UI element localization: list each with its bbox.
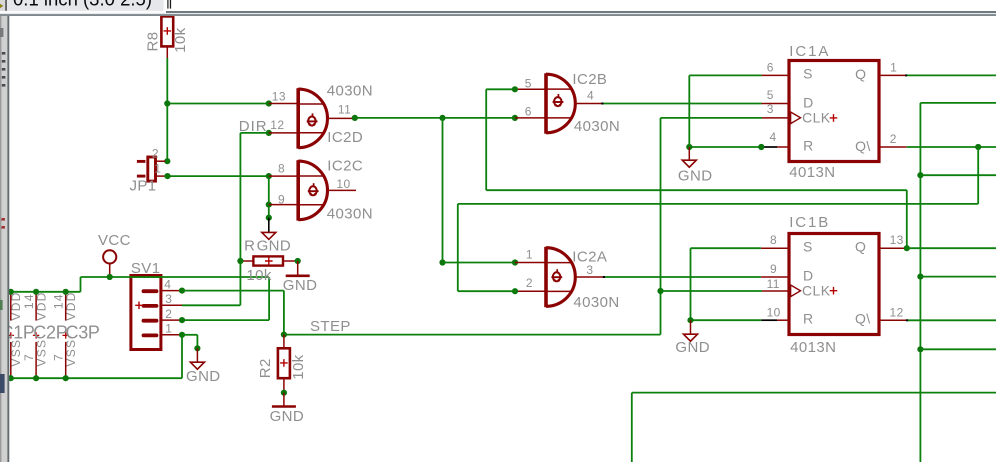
wire IC2B pin5 feedback from IC1B Q	[486, 88, 515, 90]
junction GND/IC1B	[687, 317, 693, 323]
wire SV1 pin4 (STEP)	[182, 290, 284, 292]
wire to IC1B CLK	[661, 290, 763, 292]
svg-text:GND: GND	[675, 339, 710, 356]
svg-text:11: 11	[767, 277, 780, 291]
junction VSS C1P	[8, 375, 14, 381]
svg-text:IC2C: IC2C	[327, 158, 363, 175]
svg-text:R2: R2	[257, 358, 274, 378]
svg-text:9: 9	[770, 262, 777, 276]
wire STEP	[284, 334, 661, 336]
junction IC2D output	[352, 115, 358, 121]
wire DIR to IC2D pin 12	[240, 132, 268, 134]
junction IC1A R pin	[758, 144, 764, 150]
wire IC2B out to IC1A D	[602, 103, 761, 105]
junction GND/IC1A	[686, 144, 692, 150]
junction at R8/IC2D branch	[164, 100, 170, 106]
svg-text:4030N: 4030N	[327, 205, 373, 222]
svg-text:4: 4	[770, 130, 777, 144]
svg-text:12: 12	[890, 306, 904, 320]
wire down from T to IC2A pin1	[442, 118, 444, 263]
svg-text:5: 5	[767, 88, 774, 102]
svg-text:D: D	[803, 267, 814, 283]
wire to IC2A pin 1	[443, 262, 516, 264]
ground stem	[196, 348, 198, 362]
svg-text:VDD: VDD	[9, 291, 23, 320]
svg-text:GND: GND	[283, 277, 318, 294]
junction IC2B pin6	[512, 115, 518, 121]
svg-text:R: R	[244, 237, 255, 254]
svg-text:4013N: 4013N	[790, 339, 836, 356]
ground symbol GND (below IC2C)	[262, 232, 276, 239]
svg-text:8: 8	[770, 233, 777, 247]
svg-text:14: 14	[52, 293, 66, 309]
svg-text:10k: 10k	[172, 27, 189, 52]
junction SV1 pin2	[179, 317, 185, 323]
resistor R (10k pullup, horizontal)	[240, 256, 297, 265]
svg-text:1: 1	[526, 247, 533, 261]
wire SV1 pin1 to VSS rail	[181, 335, 183, 378]
junction T at x443	[439, 115, 445, 121]
svg-text:VSS: VSS	[35, 339, 49, 367]
svg-text:7: 7	[22, 353, 36, 361]
svg-text:Q\: Q\	[855, 311, 871, 327]
black overlap on R pin	[761, 146, 777, 148]
svg-text:4030N: 4030N	[573, 294, 619, 311]
svg-text:10k: 10k	[290, 354, 307, 379]
origin cross IC1A	[830, 114, 838, 122]
wire net N$1: R8 to JP1 pin2	[166, 58, 168, 161]
svg-text:S: S	[803, 238, 813, 254]
wire IC1A S/R to GND	[689, 74, 761, 76]
svg-text:13: 13	[272, 90, 286, 104]
junction IC2A pin2	[512, 288, 518, 294]
junction VDD C2P	[33, 289, 39, 295]
svg-text:10: 10	[767, 306, 781, 320]
svg-text:IC2B: IC2B	[572, 71, 607, 88]
ground symbol GND (SV1)	[190, 362, 204, 369]
svg-text:VDD: VDD	[35, 291, 49, 320]
pin header C3P	[63, 292, 69, 378]
svg-text:4013N: 4013N	[789, 164, 835, 181]
svg-text:VSS: VSS	[64, 339, 78, 367]
wire branch to IC2D pin 13	[167, 103, 268, 105]
wire bus branch y277	[920, 276, 996, 278]
junction VSS C2P	[33, 375, 39, 381]
svg-text:11: 11	[338, 102, 351, 116]
svg-text:JP1: JP1	[130, 178, 157, 195]
svg-text:CLK: CLK	[802, 110, 831, 126]
origin cross IC1B	[830, 287, 838, 295]
svg-text:C2P: C2P	[33, 323, 67, 343]
wire VCC over SV1 box top	[130, 276, 163, 278]
junction VDD C3P	[63, 289, 69, 295]
junction bus y349	[917, 346, 923, 352]
svg-text:9: 9	[278, 193, 285, 207]
svg-text:4030N: 4030N	[574, 118, 620, 135]
junction VDD C1P	[8, 289, 14, 295]
wire IC1B Q\ right	[907, 319, 996, 321]
wire IC1B S/R to GND	[691, 247, 761, 249]
pin header C2P	[33, 292, 39, 378]
svg-text:12: 12	[270, 118, 284, 132]
wire DIR vertical SV1 pin3 to IC2D pin12	[239, 133, 241, 305]
wire IC2C pin8 down to pin9 and GND	[268, 176, 270, 218]
wire JP1 pin1 to IC2C pin 8	[168, 175, 269, 177]
svg-text:4: 4	[587, 88, 594, 102]
top status bar background	[0, 0, 996, 16]
flip-flop IC1A (4013N)	[762, 61, 907, 162]
XOR gate IC2B (4030N)	[515, 73, 602, 133]
junction R2 bottom	[281, 390, 287, 396]
ground symbol GND (IC1B)	[684, 334, 698, 341]
ground stem	[690, 320, 692, 334]
connector SV1	[131, 276, 182, 350]
junction IC2D pin 13	[266, 100, 272, 106]
ground stem	[297, 261, 299, 275]
junction SV1 pin1	[179, 332, 185, 338]
svg-text:2: 2	[526, 276, 533, 290]
wire VCC rail	[110, 276, 269, 278]
ground symbol GND (bar style, R2)	[272, 405, 296, 408]
wire IC1B Q right	[907, 247, 996, 249]
svg-text:GND: GND	[270, 408, 305, 425]
svg-text:13: 13	[890, 233, 904, 247]
svg-text:8: 8	[278, 161, 285, 175]
wire CLK net: IC1A CLK corner	[661, 117, 763, 119]
junction VSS C3P	[63, 375, 69, 381]
junction IC2D pin 12	[266, 130, 272, 136]
junction at JP1 pin 2	[164, 158, 170, 164]
junction VCC	[107, 274, 113, 280]
junction IC2C pin 9	[266, 202, 272, 208]
svg-text:2: 2	[890, 132, 897, 146]
junction CLK branch to IC1B	[657, 288, 663, 294]
ground stem	[688, 147, 690, 160]
jumper JP1	[137, 157, 165, 181]
svg-text:Q: Q	[855, 239, 866, 255]
junction IC2C pin 8	[266, 173, 272, 179]
left toolbar sliver	[0, 16, 8, 462]
resistor R8	[161, 16, 173, 58]
svg-text:S: S	[803, 66, 813, 82]
XOR gate IC2D (4030N)	[269, 88, 355, 148]
svg-text:IC2D: IC2D	[327, 129, 363, 146]
junction SV1 pin4	[179, 288, 185, 294]
junction IC1B Q pin13	[904, 245, 910, 251]
wire right bus vertical	[919, 103, 921, 462]
svg-text:1: 1	[154, 162, 161, 176]
svg-text:0.1 inch (3.0 2.5): 0.1 inch (3.0 2.5)	[13, 0, 152, 11]
junction STEP/R2	[281, 332, 287, 338]
XOR gate IC2A (4030N)	[515, 247, 604, 307]
wire IC2D out to IC2B pin6	[355, 117, 515, 119]
svg-text:6: 6	[525, 104, 532, 118]
coordinate field	[7, 0, 164, 11]
XOR gate IC2C (4030N)	[269, 160, 356, 220]
svg-text:STEP: STEP	[310, 318, 351, 335]
svg-text:GND: GND	[678, 167, 713, 184]
junction Q\ feedback	[975, 144, 981, 150]
svg-text:4030N: 4030N	[327, 83, 373, 100]
double rule under bar	[0, 11, 996, 13]
junction at JP1 pin 1	[164, 173, 170, 179]
svg-text:VDD: VDD	[64, 291, 78, 320]
svg-text:3: 3	[165, 292, 172, 306]
wire IC1A Q\ right	[907, 146, 996, 148]
svg-text:1: 1	[165, 322, 172, 336]
svg-text:1: 1	[890, 61, 897, 75]
resistor R2 (10k, vertical)	[278, 335, 290, 393]
svg-text:SV1: SV1	[131, 260, 161, 277]
svg-text:4: 4	[164, 277, 171, 291]
ground symbol GND (bar style)	[286, 274, 310, 277]
junction IC2A pin1	[512, 259, 518, 265]
svg-text:R: R	[803, 138, 814, 154]
svg-text:14: 14	[22, 293, 36, 309]
svg-text:GND: GND	[186, 368, 221, 385]
ground stem	[283, 393, 285, 406]
wire SV1 pin1 to GND	[182, 334, 197, 336]
svg-text:IC1B: IC1B	[789, 214, 830, 231]
wire DIR corner to SV1 pin 3	[182, 304, 240, 306]
svg-text:IC1A: IC1A	[789, 43, 830, 60]
svg-text:7: 7	[52, 353, 66, 361]
svg-text:Q\: Q\	[855, 138, 871, 154]
svg-text:VCC: VCC	[98, 232, 131, 249]
junction GND stem	[194, 345, 200, 351]
wire bottom rectangle	[631, 393, 633, 462]
ground stem (black overlap)	[268, 218, 270, 233]
svg-text:2: 2	[152, 147, 159, 161]
svg-text:3: 3	[586, 263, 593, 277]
wire IC2A out to IC1B D	[604, 276, 761, 278]
svg-text:VSS: VSS	[9, 339, 23, 367]
separator marks	[167, 0, 168, 9]
wire bus branch y175	[920, 174, 996, 176]
ground symbol GND (IC1A)	[682, 160, 696, 167]
wire IC1A Q right	[906, 74, 996, 76]
wire bus branch y349	[920, 348, 996, 350]
svg-text:C3P: C3P	[66, 323, 100, 343]
svg-text:Q: Q	[855, 66, 866, 82]
svg-text:CLK: CLK	[802, 283, 831, 299]
svg-text:R8: R8	[145, 32, 162, 52]
pin header C1P	[8, 292, 14, 378]
svg-text:R: R	[803, 310, 814, 326]
junction bus y175	[917, 172, 923, 178]
svg-text:2: 2	[165, 307, 172, 321]
toolbar icon fragments	[0, 28, 3, 37]
svg-text:6: 6	[767, 61, 774, 75]
junction bus y277	[917, 274, 923, 280]
svg-text:D: D	[803, 95, 814, 111]
flip-flop IC1B (4013N)	[761, 234, 907, 335]
svg-text:GND: GND	[257, 237, 292, 254]
junction above GND	[266, 215, 272, 221]
svg-text:3: 3	[767, 102, 774, 116]
wire VCC down to SV1 pin2	[268, 277, 270, 320]
junction R right	[295, 258, 301, 264]
svg-text:10: 10	[336, 177, 350, 191]
svg-text:10k: 10k	[246, 267, 271, 284]
black overlap on R pin	[761, 319, 777, 321]
wire Q\ feedback down/left to IC2A pin2	[977, 147, 979, 204]
svg-text:5: 5	[525, 76, 532, 90]
supply symbol VCC	[103, 250, 116, 263]
junction R left	[237, 258, 243, 264]
toolbar icon fragment (yellow arrow)	[0, 4, 3, 7]
wire right bus corner top	[920, 102, 996, 104]
